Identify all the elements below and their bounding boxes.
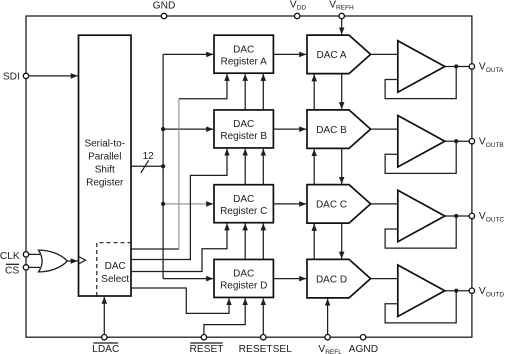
junction dot op-amp B output: [454, 139, 458, 143]
shift register U1: [79, 35, 132, 296]
svg-text:Register: Register: [86, 178, 124, 189]
pin VREFH: [339, 13, 344, 18]
pin SDI: [23, 73, 28, 78]
pin VOUTC: [469, 213, 474, 218]
wire VREFH chain DAC A to B: [341, 74, 343, 110]
wire VREFL to DAC D: [327, 299, 329, 338]
pin CS (active low): [23, 265, 28, 270]
wire data bus vertical: [162, 54, 164, 278]
wire op-amp D feedback: [385, 291, 456, 323]
svg-text:12: 12: [143, 151, 155, 162]
wire data bus branch to DAC register D: [163, 278, 213, 280]
pin VDD: [295, 13, 300, 18]
wire DAC select out 1 to register A: [131, 248, 179, 250]
junction dot op-amp C output: [454, 214, 458, 218]
pin AGND: [360, 335, 365, 340]
shift register clock input symbol: [79, 257, 86, 264]
wire 12-bit data bus from shift register: [131, 165, 163, 167]
junction dot op-amp D output: [454, 289, 458, 293]
wire RESET chain C to B: [244, 149, 246, 185]
wire RESETSEL chain C to B: [262, 149, 264, 185]
DAC register C: [214, 185, 273, 223]
wire DAC A to op-amp A: [371, 53, 398, 55]
wire DAC select out 4 to register D: [131, 288, 229, 313]
svg-text:VOUTA: VOUTA: [479, 62, 504, 75]
wire RESETSEL to register D: [262, 298, 264, 337]
wire VREFH chain DAC B to C: [341, 148, 343, 184]
svg-text:RESET: RESET: [190, 344, 224, 354]
svg-text:Shift: Shift: [95, 165, 115, 176]
svg-text:DAC: DAC: [233, 194, 254, 205]
wire VREFH drop to DAC A: [341, 16, 343, 34]
pin GND: [161, 13, 166, 18]
junction dot data bus 12: [161, 164, 165, 168]
wire RESETSEL chain D to C: [262, 223, 264, 259]
DAC B: [307, 110, 371, 148]
wire VREFL chain DAC B to A: [313, 74, 315, 110]
wire data bus branch to DAC register C: [163, 203, 213, 205]
svg-text:DAC A: DAC A: [316, 50, 346, 61]
wire register C to DAC C: [273, 203, 306, 205]
svg-text:DAC C: DAC C: [316, 200, 347, 211]
DAC register A: [214, 35, 273, 73]
wire SDI to shift register: [26, 75, 78, 77]
svg-text:VOUTD: VOUTD: [479, 286, 505, 299]
wire register D to DAC D: [273, 278, 306, 280]
svg-text:Register A: Register A: [221, 56, 267, 67]
wire register A to DAC A: [273, 53, 306, 55]
DAC C: [307, 185, 371, 224]
wire VREFH chain DAC C to D: [341, 223, 343, 259]
wire RESET to register D: [204, 298, 245, 337]
svg-text:GND: GND: [153, 1, 176, 12]
wire op-amp A feedback: [385, 66, 456, 98]
svg-text:VOUTB: VOUTB: [479, 136, 504, 149]
op-amp U2B: [398, 115, 445, 167]
svg-text:DAC: DAC: [233, 44, 254, 55]
svg-text:Parallel: Parallel: [88, 152, 121, 163]
svg-text:RESETSEL: RESETSEL: [239, 344, 293, 354]
wire DAC C to op-amp C: [371, 203, 398, 205]
svg-text:CLK: CLK: [0, 251, 20, 262]
wire LDAC to DAC select: [103, 297, 105, 337]
junction dot data bus C: [161, 202, 165, 206]
wire DAC B to op-amp B: [371, 128, 398, 130]
svg-text:VREFH: VREFH: [329, 0, 354, 11]
bus width slash: [141, 160, 149, 173]
svg-text:Register C: Register C: [220, 206, 267, 217]
svg-text:DAC D: DAC D: [316, 274, 347, 285]
pin RESET (active low): [201, 335, 206, 340]
wire DAC select out 3 to register C: [131, 223, 227, 271]
wire op-amp D output to VOUTD: [445, 290, 472, 292]
op-amp U2D: [398, 265, 445, 317]
DAC A: [307, 35, 371, 74]
wire CS to OR gate: [26, 266, 40, 268]
wire data bus branch to DAC register A: [163, 53, 213, 55]
wire register B to DAC B: [273, 128, 306, 130]
svg-text:SDI: SDI: [3, 71, 20, 82]
border frame of device: [26, 16, 472, 337]
junction dot data bus B: [161, 127, 165, 131]
wire op-amp A output to VOUTA: [445, 65, 472, 67]
svg-text:AGND: AGND: [349, 344, 378, 354]
DAC register D: [214, 259, 273, 297]
pin VREFL: [325, 335, 330, 340]
junction dot op-amp A output: [454, 64, 458, 68]
svg-text:VDD: VDD: [290, 0, 306, 11]
wire op-amp C output to VOUTC: [445, 215, 472, 217]
svg-text:Register B: Register B: [220, 131, 267, 142]
wire CLK to OR gate: [26, 253, 40, 255]
OR gate G1 (CLK/CS): [39, 250, 68, 272]
wire VREFL chain DAC D to C: [313, 224, 315, 260]
svg-text:DAC: DAC: [233, 269, 254, 280]
svg-text:LDAC: LDAC: [92, 344, 119, 354]
DAC select block (dashed): [97, 243, 131, 296]
wire RESET chain D to C: [244, 223, 246, 259]
wire RESET chain B to A: [244, 74, 246, 110]
pin CLK: [23, 252, 28, 257]
svg-text:Register D: Register D: [220, 281, 267, 292]
svg-text:DAC B: DAC B: [316, 125, 347, 136]
wire OR gate output to shift register clock: [67, 260, 77, 262]
op-amp U2C: [398, 190, 445, 242]
pin RESETSEL: [261, 335, 266, 340]
wire VREFL chain DAC C to B: [313, 149, 315, 185]
svg-text:DAC: DAC: [105, 261, 126, 272]
DAC register B: [214, 110, 273, 148]
svg-text:VOUTC: VOUTC: [479, 211, 505, 224]
DAC D: [307, 259, 371, 298]
pin VOUTB: [469, 139, 474, 144]
pin LDAC (active low): [102, 335, 107, 340]
op-amp U2A: [398, 41, 445, 92]
svg-text:Select: Select: [101, 274, 129, 285]
pin VOUTD: [469, 288, 474, 293]
svg-text:CS: CS: [5, 265, 19, 276]
pin VOUTA: [469, 64, 474, 69]
wire RESETSEL chain B to A: [262, 74, 264, 110]
wire DAC select out 2 to register B: [131, 149, 227, 260]
wire data bus branch to DAC register B: [163, 128, 213, 130]
svg-text:DAC: DAC: [233, 119, 254, 130]
wire op-amp B output to VOUTB: [445, 140, 472, 142]
wire op-amp B feedback: [385, 141, 456, 173]
svg-text:VREFL: VREFL: [318, 344, 342, 354]
svg-text:Serial-to-: Serial-to-: [84, 139, 125, 150]
wire DAC D to op-amp D: [371, 278, 398, 280]
wire op-amp C feedback: [385, 216, 456, 248]
